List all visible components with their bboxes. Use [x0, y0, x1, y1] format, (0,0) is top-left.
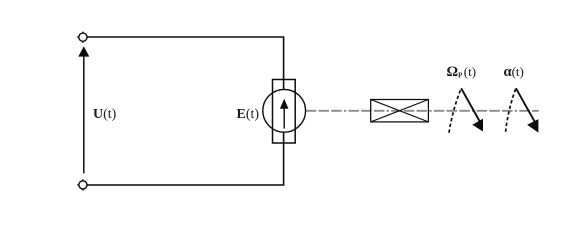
- shaft axis dash-dot line: [306, 110, 539, 112]
- voltage arrow U(t): [78, 46, 89, 173]
- source E circle: [263, 89, 306, 132]
- rotation arrow Omega_p: [449, 88, 483, 133]
- svg-text:E(t): E(t): [237, 107, 260, 122]
- wire top: [84, 37, 284, 90]
- source E rectangle: [273, 80, 296, 144]
- gearbox / coupling box with X: [371, 100, 429, 122]
- svg-text:α(t): α(t): [504, 64, 524, 80]
- source E internal arrow: [280, 99, 289, 129]
- rotation arrow alpha: [506, 88, 539, 133]
- svg-text:ΩP(t): ΩP(t): [447, 64, 477, 80]
- svg-text:U(t): U(t): [93, 107, 117, 122]
- terminal bottom-left: [77, 179, 87, 190]
- wire bottom: [84, 132, 284, 185]
- terminal top-left: [77, 32, 87, 43]
